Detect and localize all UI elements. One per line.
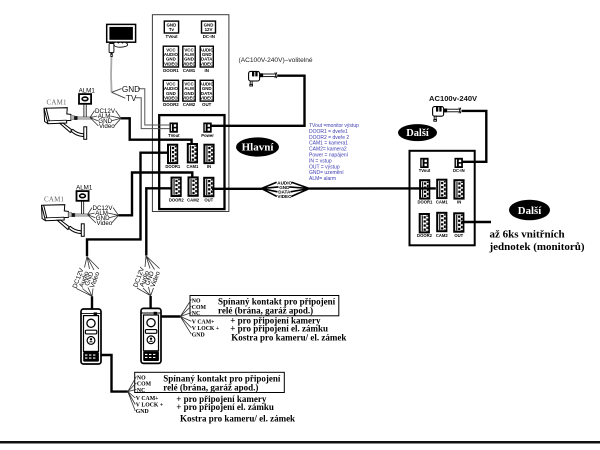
svg-text:TVout: TVout <box>166 34 179 39</box>
svg-text:DOOR2: DOOR2 <box>163 102 179 107</box>
svg-text:TVout: TVout <box>419 168 431 173</box>
svg-text:Kostra pro kameru/ el. zámek: Kostra pro kameru/ el. zámek <box>180 413 295 423</box>
svg-text:Kostra pro kameru/ el. zámek: Kostra pro kameru/ el. zámek <box>231 333 346 343</box>
svg-text:+ pro připojení el. zámku: + pro připojení el. zámku <box>176 402 274 412</box>
svg-text:Power: Power <box>201 133 214 138</box>
svg-text:V CAM+: V CAM+ <box>192 319 215 325</box>
svg-text:OUT: OUT <box>202 102 212 107</box>
svg-text:ALM1: ALM1 <box>79 88 96 95</box>
svg-text:V CAM+: V CAM+ <box>136 396 159 402</box>
svg-text:VIDEO: VIDEO <box>200 96 214 101</box>
svg-text:CAM1: CAM1 <box>183 68 196 73</box>
svg-text:VIDEO: VIDEO <box>164 96 178 101</box>
svg-text:TV: TV <box>126 94 137 103</box>
svg-text:(AC100V-240V)–volitelné: (AC100V-240V)–volitelné <box>239 57 313 64</box>
svg-text:jednotek (monitorů): jednotek (monitorů) <box>489 241 585 253</box>
svg-text:IN: IN <box>457 200 461 205</box>
svg-text:NO: NO <box>192 299 201 305</box>
svg-text:COM: COM <box>192 305 207 311</box>
svg-text:V LOCK +: V LOCK + <box>136 403 163 409</box>
svg-text:ALM= alarm: ALM= alarm <box>309 176 336 182</box>
svg-text:GND: GND <box>136 409 149 415</box>
svg-text:CAM1: CAM1 <box>186 164 199 169</box>
svg-text:VIDEO: VIDEO <box>164 61 178 66</box>
svg-text:Další: Další <box>518 205 542 217</box>
svg-text:AC100v-240V: AC100v-240V <box>429 94 478 103</box>
svg-text:DOOR2: DOOR2 <box>417 233 433 238</box>
svg-text:CAM2: CAM2 <box>436 233 449 238</box>
svg-text:DOOR2: DOOR2 <box>169 197 185 202</box>
svg-text:NC: NC <box>192 311 200 317</box>
svg-text:DOOR1: DOOR1 <box>163 68 179 73</box>
svg-text:Další: Další <box>406 128 430 139</box>
svg-text:COM: COM <box>137 382 152 388</box>
svg-text:Hlavní: Hlavní <box>242 142 275 154</box>
svg-text:IN: IN <box>207 164 211 169</box>
svg-text:Video: Video <box>99 123 115 130</box>
svg-text:DOOR1: DOOR1 <box>165 164 181 169</box>
svg-text:DOOR1: DOOR1 <box>417 200 433 205</box>
svg-text:TVout: TVout <box>168 133 180 138</box>
svg-text:NC: NC <box>137 388 145 394</box>
svg-text:GND: GND <box>122 85 140 94</box>
svg-text:OUT: OUT <box>204 197 213 202</box>
svg-text:VIDEO: VIDEO <box>182 96 196 101</box>
svg-text:IN: IN <box>204 68 208 73</box>
svg-text:12V: 12V <box>205 27 213 32</box>
svg-text:NO: NO <box>137 375 146 381</box>
svg-text:CAM2: CAM2 <box>187 197 200 202</box>
svg-text:až 6ks vnitřních: až 6ks vnitřních <box>490 229 565 241</box>
svg-text:DC-IN: DC-IN <box>453 168 465 173</box>
svg-text:V LOCK +: V LOCK + <box>192 326 219 332</box>
svg-text:relé (brána, garáž apod.): relé (brána, garáž apod.) <box>218 306 313 316</box>
svg-text:VIDEO: VIDEO <box>200 61 214 66</box>
svg-text:CAM1: CAM1 <box>436 200 449 205</box>
svg-text:Tv: Tv <box>169 27 175 32</box>
svg-text:CAM2: CAM2 <box>183 102 196 107</box>
svg-text:VIDEO: VIDEO <box>182 61 196 66</box>
svg-text:CAM1: CAM1 <box>47 99 68 107</box>
svg-text:VIDEO: VIDEO <box>277 194 292 199</box>
svg-text:DC-IN: DC-IN <box>203 34 215 39</box>
svg-text:relé (brána, garáž apod.): relé (brána, garáž apod.) <box>163 382 258 392</box>
svg-text:OUT: OUT <box>454 233 463 238</box>
svg-text:GND: GND <box>192 332 205 338</box>
